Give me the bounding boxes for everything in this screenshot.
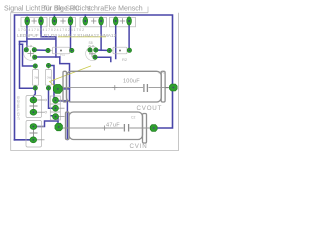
capacitor C1 plus: [112, 85, 117, 90]
wire H1: [27, 38, 56, 40]
transistor Q2 outline: [86, 47, 96, 61]
svg-text:R1: R1: [60, 52, 66, 57]
wire stub pad 100: [34, 88, 36, 100]
wire LED3 pad2 down to R2 row: [100, 21, 102, 50]
capacitor C2 bars: [124, 124, 128, 132]
capacitor C1 bars: [144, 84, 148, 92]
svg-text:47uF: 47uF: [106, 123, 120, 129]
wire Q1 pad2 to R1: [34, 49, 48, 51]
svg-text:R2: R2: [122, 57, 128, 62]
LED3: [83, 17, 88, 25]
connector CVOUT boxes: [50, 96, 60, 120]
capacitor C1 lead line: [62, 87, 169, 89]
pad C2 right: [150, 125, 157, 132]
pin lead lines: [59, 100, 65, 116]
capacitor C2 body: [66, 112, 147, 143]
svg-text:?H: ?H: [47, 76, 52, 80]
wire staircase to pin1: [50, 57, 70, 101]
small hole dots on round pads: [26, 49, 131, 141]
big pad C2 left: [55, 123, 63, 131]
svg-text:schraEke Mensch: schraEke Mensch: [87, 6, 143, 13]
transistor Q1 cross: [28, 51, 34, 57]
wire LED1 pad1 down to Q1: [26, 21, 28, 50]
wire LED2 pad1 up: [53, 15, 55, 21]
svg-text:LED5PUF L P1 D3 H MAL2 S1HMA12: LED5PUF L P1 D3 H MAL2 S1HMA12 HMA12: [17, 33, 117, 39]
traces: [20, 15, 130, 140]
wire LED4 pad1 down through R2: [115, 21, 117, 59]
Q2 pads: [88, 48, 92, 52]
wire R4 bottom to pin2: [49, 88, 56, 108]
svg-text:C2: C2: [131, 116, 135, 120]
wire: board loop top: [15, 15, 173, 140]
svg-text:Signal Licht: Signal Licht: [4, 6, 40, 13]
wire LED2 pad2 down to R1: [70, 21, 72, 51]
wire pin3 down to C2 pad: [51, 116, 58, 127]
Q1 pads: [24, 48, 28, 52]
title text row: [4, 6, 143, 13]
wire Q1 pad3 right: [34, 56, 59, 58]
svg-text:CVOUT: CVOUT: [137, 105, 163, 112]
wire vertical x55.9 through R1: [55, 37, 57, 57]
R3 pads: [33, 64, 37, 68]
wire Q2 pad3 right: [95, 57, 111, 61]
transistor Q2 cross: [89, 51, 95, 57]
capacitor C1 body: [63, 71, 165, 102]
big pad C1 left: [53, 84, 62, 93]
capacitor C2 plus: [102, 126, 107, 131]
R1 pads: [46, 48, 50, 52]
LED4: [113, 17, 118, 25]
silkscreen: LED outlines: [21, 17, 136, 26]
LED1: [25, 17, 30, 25]
svg-text:S8: S8: [89, 41, 93, 45]
airwire diagonal: [50, 66, 92, 89]
pad C1 right: [169, 84, 177, 91]
dimension frame: [11, 13, 179, 151]
R4 pads: [46, 63, 50, 67]
svg-text:für die Schr: für die Schr: [44, 6, 80, 13]
R2 pads: [107, 48, 111, 52]
wire LED1 pad2 down: [41, 21, 56, 37]
LED2 outline: [50, 17, 76, 26]
wire H2 bridge: [20, 42, 27, 45]
wire x67.4 down: [66, 101, 68, 140]
svg-text:1 7 02 4 1 7 0 2 4 1 7: 1 7 02 4 1 7 0 2 4 1 7 0 2 4 1 7 0 2 4 1…: [18, 28, 84, 32]
connector pin pads: [53, 97, 59, 103]
Q2 pin marks: [89, 45, 91, 47]
wire big pad C1 to vertical: [58, 88, 70, 90]
resistor R1 body: [50, 47, 72, 54]
connector crosses: [30, 102, 38, 110]
wire bottom-left to pad: [15, 139, 34, 141]
LED4 outline: [110, 17, 136, 26]
svg-text:CVIN: CVIN: [130, 143, 148, 150]
transistor Q1 outline: [24, 46, 34, 60]
wire LED4 pad2 down to R2 right: [128, 21, 130, 50]
resistor R2 body: [112, 47, 130, 54]
svg-text:?H: ?H: [34, 76, 39, 80]
text row under LEDs: [17, 28, 117, 39]
capacitor C2 lead line: [63, 127, 151, 129]
wire LED3 pad1 up: [84, 15, 86, 21]
resistor R3 body: [33, 68, 39, 87]
wire pad 126.5: [33, 121, 58, 127]
svg-text:SIGNALLICHT: SIGNALLICHT: [16, 96, 20, 120]
svg-text:MA2: MA2: [159, 71, 166, 75]
round pads: [24, 48, 131, 143]
Q1 pin marks: [26, 45, 28, 47]
airwire horizontal: [58, 36, 106, 38]
left connector pads: [30, 97, 37, 103]
wire Q2 pad2 to R2: [96, 49, 110, 52]
connector lead lines: [37, 100, 45, 140]
LED pads: [25, 17, 132, 25]
LED2: [52, 17, 57, 25]
connector left boxes: [26, 96, 42, 148]
svg-text:100uF: 100uF: [123, 79, 140, 85]
LED1 outline: [21, 17, 47, 26]
LED3 outline: [80, 17, 107, 26]
resistor R4 body: [45, 68, 51, 87]
